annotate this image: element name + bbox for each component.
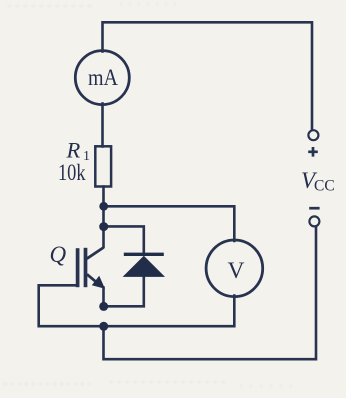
svg-text:R: R [66,138,81,163]
svg-text:Q: Q [50,242,67,267]
svg-text:V: V [228,258,245,284]
svg-text:CC: CC [314,178,335,195]
svg-text:10k: 10k [58,160,86,186]
svg-text:mA: mA [88,65,118,91]
